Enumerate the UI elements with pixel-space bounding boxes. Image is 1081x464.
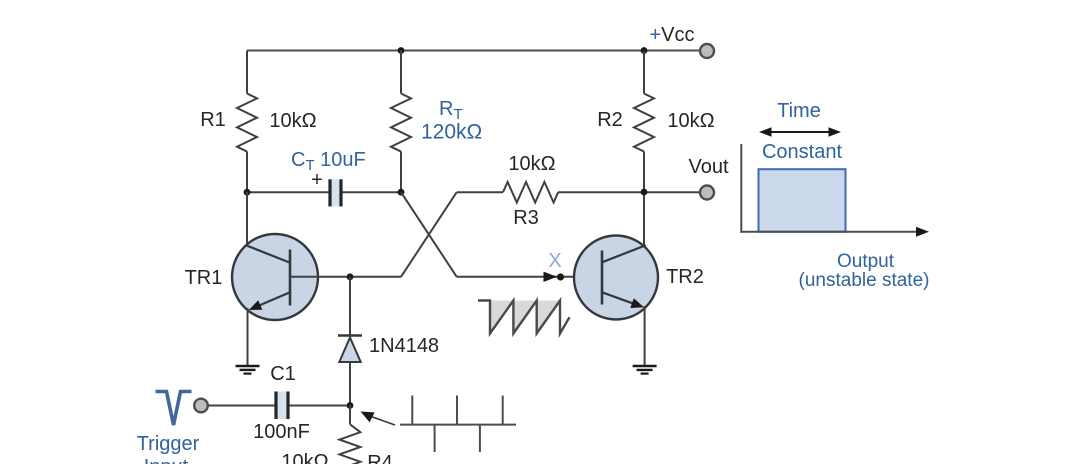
svg-text:Input: Input (144, 456, 189, 464)
terminal +Vcc (700, 44, 714, 58)
svg-text:RT: RT (439, 98, 463, 123)
svg-text:100nF: 100nF (253, 421, 310, 443)
wire RT top lead (400, 51, 402, 94)
terminal Trigger Input (194, 399, 208, 413)
svg-text:(unstable state): (unstable state) (799, 270, 930, 291)
junction Vout-R2 (641, 189, 648, 196)
junction rail-R2 (641, 47, 648, 54)
junction C1-R4-diode (347, 402, 354, 409)
wire trigger to C1 (208, 405, 275, 407)
wire R2 bottom lead (643, 152, 645, 247)
time constant double arrow (759, 127, 841, 137)
wire cross diagonal to TR2 base (401, 192, 457, 277)
wire R1 bottom lead (246, 152, 248, 193)
svg-text:C1: C1 (270, 363, 296, 385)
svg-text:Vout: Vout (688, 156, 728, 178)
wire TR2 emitter lead (644, 306, 646, 366)
wire C1 to junction (290, 405, 351, 407)
svg-text:TR2: TR2 (666, 266, 704, 288)
svg-text:R4: R4 (367, 452, 393, 464)
svg-text:10kΩ: 10kΩ (508, 153, 555, 175)
wire TR1 collector lead (246, 192, 248, 245)
wire TR1 base (290, 276, 401, 278)
svg-text:10kΩ: 10kΩ (281, 451, 328, 464)
svg-text:Output: Output (837, 251, 895, 272)
output pulse rectangle (759, 169, 846, 232)
wire cross diagonal to R3 (401, 192, 457, 277)
transistor TR1 (232, 234, 318, 320)
arrowhead into node X (544, 272, 558, 282)
svg-text:10kΩ: 10kΩ (667, 110, 714, 132)
junction R1-CT (244, 189, 251, 196)
svg-text:R1: R1 (200, 109, 226, 131)
svg-text:10kΩ: 10kΩ (269, 110, 316, 132)
arrow pointing to trigger junction (361, 412, 396, 426)
wire TR1 emitter lead (247, 308, 249, 366)
graph vertical axis (740, 144, 742, 233)
resistor R2 (634, 94, 654, 152)
wire R2 top lead (643, 51, 645, 94)
svg-text:Time: Time (777, 100, 821, 122)
capacitor CT (329, 179, 343, 206)
wire diode top lead (349, 277, 351, 335)
terminal Vout (700, 186, 714, 200)
ground TR1 (236, 366, 260, 374)
svg-text:X: X (548, 250, 561, 272)
junction TR1 base-diode (347, 273, 354, 280)
diode D1 1N4148 (338, 336, 362, 363)
resistor R4 (340, 424, 361, 464)
wire R1 top lead (246, 51, 248, 94)
wire diode bottom lead (349, 362, 351, 406)
resistor R1 (237, 94, 257, 152)
svg-text:+Vcc: +Vcc (649, 24, 694, 46)
node X dot (557, 273, 564, 280)
wire R3 left lead (457, 191, 503, 193)
svg-text:Constant: Constant (762, 141, 842, 163)
wire Vcc rail (247, 50, 700, 52)
svg-text:Trigger: Trigger (137, 433, 200, 455)
wire TR2 base feed (457, 276, 602, 278)
wire CT right (343, 191, 402, 193)
junction rail-RT (398, 47, 405, 54)
capacitor C1 (275, 392, 290, 420)
graph horizontal axis (740, 227, 929, 237)
svg-text:R2: R2 (597, 109, 623, 131)
svg-text:R3: R3 (513, 207, 539, 229)
trigger pulse train comb (400, 396, 516, 453)
resistor RT (391, 94, 411, 152)
resistor R3 (503, 182, 558, 203)
trigger pulse symbol (156, 392, 192, 426)
svg-text:+: + (311, 169, 323, 191)
wire R4 top lead (349, 406, 351, 425)
wire CT left (247, 191, 329, 193)
svg-text:TR1: TR1 (185, 267, 223, 289)
svg-text:CT 10uF: CT 10uF (291, 149, 366, 174)
svg-text:1N4148: 1N4148 (369, 335, 439, 357)
wire RT bottom lead (400, 152, 402, 193)
junction RT-CT (398, 189, 405, 196)
sawtooth waveform symbol (478, 301, 570, 334)
svg-text:120kΩ: 120kΩ (421, 121, 482, 144)
wire R3 to Vout (558, 191, 700, 193)
transistor TR2 (574, 236, 658, 320)
ground TR2 (633, 366, 657, 374)
